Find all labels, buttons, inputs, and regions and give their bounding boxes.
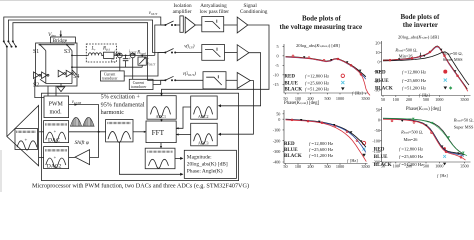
gate driver buffers left xyxy=(34,72,40,79)
svg-text:f =25,600 Hz: f =25,600 Hz xyxy=(402,78,426,84)
svg-text:S4: S4 xyxy=(73,74,79,80)
svg-text:50: 50 xyxy=(381,97,385,102)
bridge label box xyxy=(50,37,75,43)
sense line transducer 2 xyxy=(132,58,134,80)
panel2 phase curve black 500ohm xyxy=(383,119,464,155)
panel1 magnitude axes xyxy=(283,44,368,94)
sense line transducer 1 xyxy=(119,58,121,71)
svg-text:200: 200 xyxy=(406,97,412,102)
row2 switch xyxy=(164,52,176,54)
svg-text:1000: 1000 xyxy=(336,164,344,169)
svg-text:500: 500 xyxy=(423,163,429,168)
v_COM waveform xyxy=(71,117,95,126)
svg-text:+: + xyxy=(54,155,57,160)
svg-text:v(iOUT): v(iOUT) xyxy=(183,72,196,77)
wire PWM to left drivers xyxy=(35,79,44,97)
panel1 phase curve blue xyxy=(286,120,366,153)
svg-text:Lr: Lr xyxy=(91,47,97,52)
panel2 magnitude axes xyxy=(380,41,470,97)
panel1 magnitude curve blue xyxy=(286,57,366,79)
svg-text:-300: -300 xyxy=(273,149,281,154)
svg-text:ADC2: ADC2 xyxy=(198,114,208,119)
wire selector pole to summing amp apex xyxy=(6,47,8,137)
bridge lower tap node xyxy=(71,66,73,68)
modulated signal box xyxy=(106,120,133,143)
svg-text:Phase: Angle(K): Phase: Angle(K) xyxy=(187,168,223,175)
panel1 phase axes xyxy=(283,110,368,165)
i_LV arrow xyxy=(115,53,120,55)
node capacitor tap xyxy=(125,55,127,57)
svg-text:f =12,800 Hz: f =12,800 Hz xyxy=(402,69,426,75)
signal conditioning amp row2 xyxy=(237,45,249,61)
svg-text:BLUE: BLUE xyxy=(374,155,388,160)
svg-text:95% fundamental: 95% fundamental xyxy=(101,101,145,108)
svg-text:Super MSS: Super MSS xyxy=(454,124,474,129)
selector switch contacts xyxy=(3,40,17,47)
panel1 magnitude curve black xyxy=(286,57,366,77)
panel2 magnitude curve red 500ohm xyxy=(383,46,468,91)
svg-text:BLUE: BLUE xyxy=(375,79,389,84)
bridge top rail xyxy=(39,44,75,46)
svg-text:10: 10 xyxy=(375,50,379,55)
wire DAC to summing amp xyxy=(39,131,44,133)
svg-text:3500: 3500 xyxy=(460,97,468,102)
svg-text:[Hz]: [Hz] xyxy=(350,158,358,163)
signal conditioning amp row3 xyxy=(237,73,250,89)
gate driver buffers right xyxy=(58,70,64,77)
svg-text:BLACK: BLACK xyxy=(375,87,393,92)
wire row1 amp to filter xyxy=(195,24,201,26)
wire junction to shift amp xyxy=(90,132,99,158)
panel2 phase curve black 50ohm xyxy=(383,118,465,155)
svg-text:20: 20 xyxy=(375,41,379,46)
load resistor (variable) xyxy=(138,57,146,65)
svg-text:BLACK: BLACK xyxy=(284,154,302,159)
figure top border xyxy=(0,0,474,2)
wire ADC2 to FFT xyxy=(176,107,191,128)
selector switch levers xyxy=(4,42,16,47)
V_inv arrow xyxy=(60,31,62,37)
junction node xyxy=(98,131,100,133)
wire row2 filter to conditioner xyxy=(225,52,238,54)
wire row3 filter to conditioner xyxy=(226,79,237,81)
wire row3 output wrap to ADC3 xyxy=(220,81,254,135)
wire bridge output to tank xyxy=(72,54,89,56)
svg-text:1000: 1000 xyxy=(435,163,443,168)
svg-text:f =25,600 Hz: f =25,600 Hz xyxy=(305,80,329,86)
svg-text:BLACK: BLACK xyxy=(374,163,392,168)
switch S2 xyxy=(40,79,46,83)
wire row1 to isolation amp xyxy=(175,24,180,26)
wire bridge lower rail to load return xyxy=(72,66,142,68)
panel2 phase curve green 50ohm xyxy=(383,118,467,156)
switch S3 xyxy=(67,45,72,51)
ADC1 box xyxy=(147,96,176,120)
svg-text:0: 0 xyxy=(378,118,380,123)
i_OUT arrow xyxy=(129,53,134,55)
svg-text:vOUT: vOUT xyxy=(149,11,158,16)
wire row3 to filter xyxy=(175,79,203,81)
svg-text:BLACK: BLACK xyxy=(284,88,302,93)
svg-text:-100: -100 xyxy=(273,128,281,133)
svg-text:-5: -5 xyxy=(275,63,279,68)
switch S4 xyxy=(72,70,77,75)
svg-text:f: f xyxy=(437,173,439,178)
svg-text:f =51,200 Hz: f =51,200 Hz xyxy=(305,87,329,93)
panel2 phase axes xyxy=(380,107,470,163)
svg-text:5% excitation +: 5% excitation + xyxy=(101,94,141,101)
magnitude result box xyxy=(184,150,236,178)
antialiasing filter row1 xyxy=(202,17,224,32)
panel1 phase legend xyxy=(284,141,366,159)
wire row1 filter to conditioner xyxy=(224,24,238,26)
svg-text:50: 50 xyxy=(276,112,280,117)
svg-text:Bode plots of: Bode plots of xyxy=(302,15,342,23)
signal conditioning amp row1 xyxy=(237,17,248,33)
wire test bus 3 xyxy=(13,23,166,81)
load node xyxy=(141,55,143,57)
wire spectrum to magnitude box xyxy=(175,157,183,159)
panel1 phase markers xyxy=(291,119,358,142)
svg-text:f =25,600 Hz: f =25,600 Hz xyxy=(309,147,333,153)
wire row2 output wrap to ADC2 xyxy=(220,53,261,106)
svg-text:50: 50 xyxy=(376,107,380,112)
panel2 phase markers xyxy=(391,120,462,158)
bridge outer box xyxy=(36,43,77,86)
svg-text:RED: RED xyxy=(284,142,295,147)
svg-text:100: 100 xyxy=(295,164,301,169)
wire tank interior xyxy=(101,54,103,56)
ADC3 box xyxy=(191,123,218,146)
wire ADC1 to FFT xyxy=(161,119,163,121)
summing amp waveform icon xyxy=(15,129,38,151)
svg-text:f =12,800 Hz: f =12,800 Hz xyxy=(305,74,329,80)
wire test bus 2 xyxy=(8,20,165,53)
svg-text:500: 500 xyxy=(324,96,330,101)
svg-text:Rload=500 Ω,: Rload=500 Ω, xyxy=(400,129,423,135)
svg-text:0: 0 xyxy=(378,60,380,65)
svg-text:20log_abs(Kv,mea,t) [dB]: 20log_abs(Kv,mea,t) [dB] xyxy=(296,43,340,49)
bridge left leg wire xyxy=(45,51,47,84)
svg-text:RED: RED xyxy=(375,70,386,75)
svg-text:RED: RED xyxy=(374,147,385,152)
antialiasing filter row2 xyxy=(202,45,225,61)
svg-text:-100: -100 xyxy=(372,139,380,144)
svg-text:[Hz]: [Hz] xyxy=(440,173,448,178)
wire row2 to filter xyxy=(175,52,202,54)
svg-text:R(r): R(r) xyxy=(102,47,111,52)
svg-text:200: 200 xyxy=(307,164,313,169)
current sensor loop 2 xyxy=(130,53,135,58)
bridge right leg wire xyxy=(71,51,73,84)
svg-text:PWM: PWM xyxy=(49,102,64,108)
svg-text:5: 5 xyxy=(277,44,279,49)
svg-text:100: 100 xyxy=(393,163,399,168)
svg-text:500: 500 xyxy=(423,97,429,102)
summing amplifier (left big triangle) xyxy=(7,106,39,166)
current sensor loop 1 xyxy=(117,53,122,58)
panel2 phase legend xyxy=(374,146,446,168)
row1 switch xyxy=(164,24,176,26)
panel2 magnitude markers xyxy=(389,51,458,77)
panel2 phase curve red 500ohm xyxy=(383,119,466,160)
svg-text:Magnitude:: Magnitude: xyxy=(187,155,212,161)
svg-text:FFT: FFT xyxy=(152,129,165,137)
svg-text:S1: S1 xyxy=(33,49,39,55)
svg-text:Phase(Kv,inv) [deg]: Phase(Kv,inv) [deg] xyxy=(406,107,442,112)
antialiasing filter row3 xyxy=(203,72,226,89)
svg-text:3500: 3500 xyxy=(460,163,468,168)
FFT box xyxy=(146,121,176,143)
PWM modulator box xyxy=(44,96,69,118)
microprocessor box xyxy=(42,93,239,180)
svg-text:+: + xyxy=(54,129,57,134)
svg-text:f =25,600 Hz: f =25,600 Hz xyxy=(399,154,423,160)
svg-text:Shift φ: Shift φ xyxy=(75,139,89,146)
svg-text:0: 0 xyxy=(278,117,280,122)
panel2 magnitude annotation arrow xyxy=(420,53,422,57)
panel2 phase curve blue 500ohm xyxy=(383,119,464,156)
svg-text:20log_abs(Kv,inv) [dB]: 20log_abs(Kv,inv) [dB] xyxy=(398,35,439,41)
spectrum box xyxy=(145,148,175,169)
figure left lower border xyxy=(0,150,2,192)
svg-text:Bode plots of: Bode plots of xyxy=(401,13,441,21)
svg-text:f =51,200 Hz: f =51,200 Hz xyxy=(309,153,333,159)
svg-text:BLUE: BLUE xyxy=(284,81,298,86)
bridge bottom rail xyxy=(46,83,72,85)
wire modulated box down to phase input xyxy=(119,142,182,174)
panel1 magnitude markers xyxy=(292,55,362,75)
svg-text:-15: -15 xyxy=(273,82,279,87)
svg-text:RED: RED xyxy=(284,75,295,80)
row3 switch xyxy=(164,79,176,81)
panel1 phase curve red xyxy=(286,120,367,162)
svg-text:BLUE: BLUE xyxy=(284,148,298,153)
wire modulated box to FFT xyxy=(133,131,146,133)
panel1 magnitude legend xyxy=(284,74,344,93)
svg-text:DAC: DAC xyxy=(48,138,60,144)
wire PWM output xyxy=(69,105,99,132)
svg-text:Microprocessor with PWM functi: Microprocessor with PWM function, two DA… xyxy=(32,182,249,189)
wire test bus 1 (top) xyxy=(4,17,166,41)
svg-text:harmonic: harmonic xyxy=(101,109,125,116)
wire transducer1 to row2 xyxy=(124,53,165,77)
svg-text:50: 50 xyxy=(283,164,287,169)
wire DAC output xyxy=(69,131,106,133)
DAC2 box xyxy=(44,147,69,170)
svg-text:20log_abs(K) [dB]: 20log_abs(K) [dB] xyxy=(187,161,228,168)
svg-text:f: f xyxy=(419,92,421,97)
panel2 magnitude curve black 500ohm xyxy=(383,46,467,89)
svg-text:Cr: Cr xyxy=(111,58,116,64)
svg-text:Rload=50 Ω,: Rload=50 Ω, xyxy=(453,118,474,124)
wire PWM gate drive 1 xyxy=(47,86,49,96)
svg-text:1000: 1000 xyxy=(435,97,443,102)
svg-text:500: 500 xyxy=(324,164,330,169)
wire transducer2 to row3 xyxy=(153,80,165,84)
switch S1 xyxy=(40,45,46,51)
ground xyxy=(57,84,65,92)
wire shift amp to DAC2 xyxy=(69,156,75,158)
panel1 magnitude curve red xyxy=(286,57,371,96)
svg-text:f =51,200 Hz: f =51,200 Hz xyxy=(402,86,426,92)
wire row1 output wrap to ADC1 xyxy=(162,25,270,95)
svg-text:v(iLV): v(iLV) xyxy=(184,44,195,49)
isolation amplifier U1 xyxy=(180,16,183,32)
svg-text:3500: 3500 xyxy=(361,164,369,169)
svg-text:the inverter: the inverter xyxy=(403,21,438,29)
svg-text:0: 0 xyxy=(277,54,279,59)
svg-text:transducer: transducer xyxy=(102,77,118,81)
phase shift amp xyxy=(75,150,90,165)
svg-text:low pass filter: low pass filter xyxy=(200,8,230,15)
svg-text:DAC2: DAC2 xyxy=(47,163,62,169)
svg-text:amplifier: amplifier xyxy=(173,8,192,15)
svg-text:the voltage measuring trace: the voltage measuring trace xyxy=(280,23,363,31)
wire DAC2 to summing amp xyxy=(39,156,44,158)
svg-text:100: 100 xyxy=(393,97,399,102)
svg-text:+: + xyxy=(25,139,28,144)
svg-text:-50: -50 xyxy=(374,128,380,133)
svg-text:transducer: transducer xyxy=(131,85,147,89)
svg-text:mod.: mod. xyxy=(50,109,63,115)
svg-text:S2: S2 xyxy=(33,83,39,89)
resonant tank dashed box xyxy=(86,44,116,62)
wire ADC3 to FFT xyxy=(176,134,191,136)
panel1 phase curve black xyxy=(286,119,366,147)
DAC box xyxy=(44,121,69,144)
ADC2 box xyxy=(191,96,218,119)
svg-text:Rload: Rload xyxy=(136,51,146,56)
panel2 magnitude curve black 50ohm xyxy=(383,52,469,85)
svg-text:vOUT: vOUT xyxy=(147,61,156,67)
svg-text:S3: S3 xyxy=(64,49,70,55)
wire v_OUT sense up to row1 xyxy=(155,25,166,55)
panel2 magnitude legend xyxy=(375,69,452,91)
svg-text:f =12,800 Hz: f =12,800 Hz xyxy=(399,146,423,152)
panel2 magnitude curve blue 500ohm xyxy=(383,47,465,86)
svg-text:ADC1: ADC1 xyxy=(156,114,166,119)
svg-text:3500: 3500 xyxy=(361,96,369,101)
wire FFT to spectrum box xyxy=(160,143,162,149)
wire tank output xyxy=(114,54,155,56)
svg-text:Phase(Kv,out) [deg]: Phase(Kv,out) [deg] xyxy=(284,101,320,106)
current transducer box 1 xyxy=(101,71,125,81)
svg-text:f: f xyxy=(347,158,349,163)
svg-text:Min=26: Min=26 xyxy=(404,137,419,142)
wire PWM gate drive 2 xyxy=(55,86,57,96)
svg-text:-10: -10 xyxy=(273,73,279,78)
svg-text:ADC3: ADC3 xyxy=(198,141,208,146)
current transducer box 2 xyxy=(129,79,153,89)
svg-text:1000: 1000 xyxy=(336,96,344,101)
svg-text:Conditioning: Conditioning xyxy=(240,9,268,15)
bridge output node xyxy=(71,55,73,57)
svg-text:-200: -200 xyxy=(273,138,281,143)
svg-text:-400: -400 xyxy=(273,160,281,165)
